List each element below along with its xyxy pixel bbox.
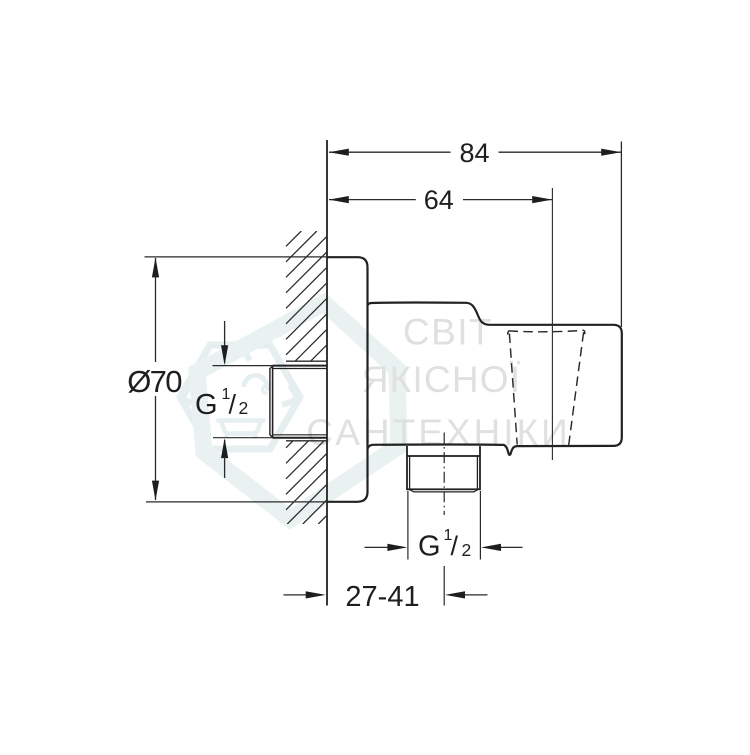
arrow dia70 down xyxy=(152,481,159,501)
arrow G half top (down) xyxy=(221,345,228,365)
cone rim right tick xyxy=(583,330,586,334)
centreline lower extension xyxy=(443,566,445,606)
dim 84 line left part xyxy=(329,151,451,153)
svg-text:G: G xyxy=(418,531,441,563)
outlet end chamfer xyxy=(409,489,478,492)
dimension texts xyxy=(127,138,489,613)
arrow bottom G half right xyxy=(481,544,501,551)
bottom G half right dim line xyxy=(500,546,523,548)
body outline with holder arm xyxy=(368,302,622,454)
dim 27-41 left dim line xyxy=(284,594,308,596)
dim 84 right extension line xyxy=(620,142,622,328)
arrow bottom G half left xyxy=(387,544,407,551)
watermark faucet glyph xyxy=(244,376,268,394)
watermark bathtub glyph xyxy=(217,421,266,439)
svg-text:/: / xyxy=(229,390,237,420)
svg-text:Ø70: Ø70 xyxy=(127,364,182,399)
arrow 27-41 left xyxy=(306,591,326,598)
svg-text:G: G xyxy=(195,389,218,421)
arrow 64 right xyxy=(532,196,552,203)
wall hole upper edge xyxy=(286,360,327,362)
outlet centreline dash-dot xyxy=(443,433,445,516)
watermark logo hexagon xyxy=(180,345,300,449)
outlet neck left xyxy=(406,446,408,456)
hatch lower block xyxy=(286,231,326,524)
cone socket left hidden line xyxy=(509,334,517,445)
outlet neck right xyxy=(479,446,481,456)
svg-text:64: 64 xyxy=(424,185,454,215)
outlet thread root left xyxy=(409,456,411,489)
arrow 64 left xyxy=(329,196,349,203)
svg-text:2: 2 xyxy=(462,540,472,560)
supply pipe G1/2 (left) xyxy=(270,366,327,438)
bottom G half left extension line xyxy=(407,491,409,560)
wall hole lower edge xyxy=(286,440,327,442)
bottom outlet nipple xyxy=(407,446,480,492)
dim dia70 line upper part xyxy=(155,258,157,362)
dia70 bottom extension line xyxy=(146,501,327,503)
dia70 top extension line xyxy=(145,256,328,258)
pipe dim bottom extension line xyxy=(213,437,273,439)
dim dia70 line lower part xyxy=(155,396,157,500)
dim 64 line left part xyxy=(329,199,416,201)
cone socket right hidden line xyxy=(569,332,584,445)
arrow G half bottom (up) xyxy=(221,438,228,458)
svg-text:ЯКІСНОЇ: ЯКІСНОЇ xyxy=(362,359,521,400)
arrow 27-41 right xyxy=(445,591,465,598)
left G half lower arrow stem xyxy=(224,440,226,478)
wall line xyxy=(326,140,328,606)
handshower cone hidden lines xyxy=(508,330,585,445)
escutcheon wall plate xyxy=(327,257,368,502)
cone rim left tick xyxy=(508,331,509,335)
svg-text:27-41: 27-41 xyxy=(345,581,419,613)
svg-text:2: 2 xyxy=(239,398,249,418)
arrow dia70 up xyxy=(152,257,159,277)
arrow 84 left xyxy=(329,149,349,156)
dim 84 line right part xyxy=(499,151,621,153)
watermark hexagon fold right xyxy=(282,385,298,405)
watermark hexagon fold left xyxy=(182,385,198,405)
svg-text:/: / xyxy=(451,531,459,561)
outlet thread root right xyxy=(476,456,478,489)
bottom G half right extension line xyxy=(479,491,481,560)
holder axis extension line xyxy=(551,188,553,460)
cone socket top rim hidden line xyxy=(509,330,585,332)
watermark hexagon fold top xyxy=(230,346,250,360)
watermark large hexagon ring xyxy=(197,303,399,519)
pipe dim top extension line xyxy=(213,365,273,367)
dim 64 line right part xyxy=(463,199,552,201)
outlet thread body xyxy=(407,456,480,489)
left G half upper arrow stem xyxy=(224,321,226,363)
hatch upper block xyxy=(286,231,326,524)
arrow 84 right xyxy=(601,149,621,156)
dim 27-41 right dim line xyxy=(464,594,488,596)
bottom G half left dim line xyxy=(365,546,390,548)
svg-text:84: 84 xyxy=(459,138,489,168)
